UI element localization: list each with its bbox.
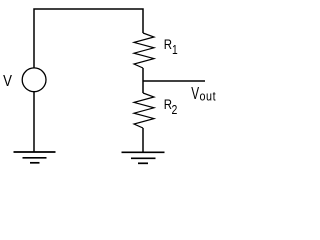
svg-text:out: out [200, 88, 217, 103]
svg-text:R: R [164, 36, 172, 52]
svg-text:V: V [191, 84, 199, 104]
svg-text:2: 2 [172, 103, 178, 117]
svg-text:1: 1 [172, 44, 178, 57]
svg-text:V: V [3, 73, 12, 90]
